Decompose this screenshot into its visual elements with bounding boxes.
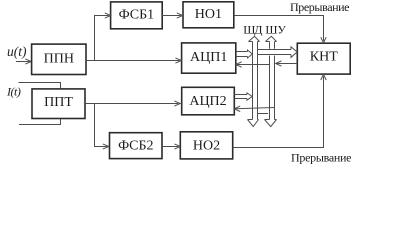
bus ShU bottom arrowhead	[265, 120, 277, 127]
svg-text:АЦП2: АЦП2	[189, 94, 226, 109]
bus arrow ShD to KNT (hollow)	[258, 47, 298, 58]
wire ShD-ShU connector bar (ADC2 level)	[258, 113, 269, 115]
wire PPT output to ADC2	[85, 103, 178, 105]
svg-text:НО1: НО1	[195, 7, 222, 22]
wire I(t) lower lead	[19, 119, 61, 125]
wire ShD-ShU connector bar (ADC1 level)	[258, 64, 270, 66]
wire ShU to ADC1 control	[236, 64, 269, 66]
wire branch down to FSB2	[95, 104, 107, 147]
block FSB2 (ФСБ2)	[110, 133, 163, 159]
svg-text:Прерывание: Прерывание	[291, 151, 352, 165]
wire KNT to ShU control	[276, 63, 297, 65]
svg-text:НО2: НО2	[193, 138, 220, 153]
block FSB1 (ФСБ1)	[111, 2, 163, 29]
svg-text:ППТ: ППТ	[44, 95, 73, 110]
block PPN (ППН)	[32, 44, 86, 74]
block KNT (КНТ)	[297, 43, 350, 74]
wire FSB1 to NO1	[162, 15, 181, 17]
wire u(t) input arrow	[16, 61, 30, 63]
svg-text:Прерывание: Прерывание	[290, 0, 350, 14]
block PPT (ППТ)	[32, 89, 85, 119]
wire FSB2 to NO2	[162, 146, 178, 148]
bus ShU vertical (control bus)	[269, 42, 271, 120]
block NO1 (НО1)	[183, 2, 234, 28]
svg-text:ППН: ППН	[44, 52, 74, 67]
block NO2 (НО2)	[180, 132, 232, 159]
wire NO1 to KNT (interrupt, top)	[234, 16, 324, 41]
bus ShU top arrowhead	[266, 36, 277, 41]
svg-text:ФСБ2: ФСБ2	[118, 139, 153, 154]
bus ShD top arrowhead	[249, 36, 260, 41]
block ADC1 (АЦП1)	[182, 43, 236, 73]
wire PPN output to ADC1	[86, 60, 180, 62]
wire NO2 to KNT (interrupt, bottom)	[233, 76, 324, 147]
wire ShU to ADC2 control	[235, 108, 275, 109]
bus ShD vertical (data bus)	[252, 42, 254, 120]
svg-text:I(t): I(t)	[6, 84, 21, 98]
svg-text:u(t): u(t)	[7, 44, 27, 59]
bus ShD bottom arrowhead	[248, 120, 259, 127]
block ADC2 (АЦП2)	[182, 87, 235, 115]
svg-text:КНТ: КНТ	[310, 50, 338, 65]
bus arrow ADC2 to ShD (hollow)	[234, 93, 252, 100]
svg-text:ШД: ШД	[243, 23, 262, 37]
wire I(t) upper lead	[19, 83, 61, 89]
svg-text:АЦП1: АЦП1	[190, 50, 227, 65]
svg-text:ШУ: ШУ	[265, 23, 286, 37]
svg-text:ФСБ1: ФСБ1	[119, 8, 154, 23]
bus arrow ADC1 to ShD (hollow)	[236, 50, 253, 58]
wire branch up to FSB1	[95, 16, 109, 61]
